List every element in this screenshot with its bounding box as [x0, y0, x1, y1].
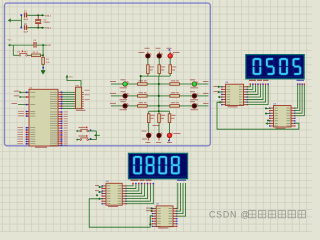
- wire reset left drop: [12, 45, 14, 55]
- led D5 west (row2): [123, 94, 128, 99]
- label R13: [171, 114, 175, 117]
- capacitor C1: [24, 13, 25, 18]
- U2 pin stubs: [222, 86, 225, 88]
- wire R0 to RST node: [41, 54, 44, 56]
- wires U2 outputs to DS1 segments: [247, 85, 251, 87]
- wires north LED to resistor: [147, 58, 149, 65]
- wire north common bus: [141, 75, 171, 77]
- label EA at MCU: [18, 115, 24, 118]
- ground terminal (reset): [41, 69, 45, 71]
- wire south bus: [149, 110, 170, 112]
- led D6 west (row3): [123, 104, 128, 109]
- wire C2 to XTAL2 net: [27, 27, 44, 29]
- resistor R4 north: [169, 65, 172, 74]
- wire RST to MCU: [18, 104, 26, 106]
- junction RST node top: [42, 44, 44, 46]
- wires north resistor to bus: [147, 74, 149, 77]
- wire node button K2: [76, 139, 78, 141]
- east net label row2: [203, 92, 209, 95]
- resistor R2 north: [147, 65, 150, 74]
- led D11 south (off): [157, 133, 162, 138]
- svg-text:CSDN @: CSDN @: [209, 209, 250, 219]
- wires U4 outputs to DS2 segments: [125, 185, 133, 186]
- resistor R11 south: [147, 114, 150, 123]
- button K0: [19, 55, 21, 57]
- svg-text:10k: 10k: [46, 62, 49, 64]
- DS1 pin logic states: [250, 83, 252, 85]
- junction RST mid: [42, 54, 44, 56]
- capacitor C2: [24, 25, 25, 30]
- junction crystal top: [37, 14, 39, 16]
- label R4: [172, 66, 176, 69]
- wire center to east resistor row1: [159, 83, 170, 85]
- wire east net stub row2: [197, 95, 209, 97]
- crystal X1: [37, 15, 39, 19]
- label R5: [139, 79, 144, 82]
- node R1 bottom (logic state): [42, 67, 44, 69]
- wires U3 left nets: [267, 107, 271, 109]
- wire east resistor to LED row2: [179, 95, 192, 97]
- U2 internal pin names: [227, 85, 231, 88]
- terminal dot U3 left: [267, 120, 269, 122]
- wire C3 to RST node: [37, 44, 47, 46]
- MCU internal pin name text: [30, 91, 35, 94]
- wire to button K0: [13, 54, 19, 56]
- wire west LED to resistor row2: [127, 95, 137, 97]
- east net label row3: [203, 102, 209, 105]
- U2 left red labels: [214, 85, 218, 88]
- U4 internal pin names: [107, 185, 111, 188]
- button K2: [80, 139, 82, 141]
- wire center vertical bus: [158, 76, 160, 111]
- junction center row1: [158, 83, 160, 85]
- DS2 bottom pin labels red: [131, 180, 139, 181]
- value RESPACK-8: [76, 110, 86, 111]
- wire east net stub row1: [197, 83, 209, 85]
- svg-text:XTAL2: XTAL2: [45, 27, 52, 30]
- node K1 right state: [90, 129, 92, 131]
- terminal dots U2 left: [218, 86, 220, 88]
- south LED mid label: [153, 124, 160, 127]
- south net labels: [146, 141, 151, 144]
- terminal arrow U4 serial: [98, 198, 101, 201]
- west LED label row1: [121, 78, 126, 81]
- svg-text:VCC: VCC: [8, 40, 13, 42]
- junction row1 tap: [140, 83, 142, 85]
- south LED labels: [142, 130, 147, 133]
- MCU right pin logic states: [61, 92, 63, 94]
- svg-text:VCC: VCC: [69, 76, 74, 78]
- U3 pin logic states: [269, 107, 270, 108]
- wire R1 to ground: [42, 64, 44, 70]
- node C2 left (logic state): [20, 27, 22, 29]
- U5 internal pin names: [157, 207, 161, 210]
- U5 pin stubs: [153, 208, 156, 210]
- resistor R12 south: [158, 114, 161, 123]
- resistor R6 west: [138, 95, 148, 98]
- watermark CJK glyph blocks: [249, 211, 256, 218]
- resistor R8 east: [170, 83, 180, 86]
- west net label row3: [110, 102, 116, 105]
- west LED label row3: [121, 100, 126, 103]
- value AT89C51 below MCU: [35, 147, 47, 148]
- MCU left pin stubs: [26, 91, 29, 93]
- wires U5 to DS2 digit commons: [176, 183, 178, 209]
- wire west net stub row1: [111, 83, 123, 85]
- 7-segment display DS1 showing 0505: [246, 55, 304, 79]
- resistor R5 west: [138, 83, 148, 86]
- MCU P1 net labels: [18, 126, 24, 129]
- wire east resistor to LED row1: [179, 83, 192, 85]
- DS1 bottom pin labels red: [249, 80, 256, 81]
- wire vertical cap common: [20, 15, 22, 27]
- west net label row1: [110, 80, 116, 83]
- label R8: [171, 79, 176, 82]
- button K1: [80, 130, 82, 132]
- wire serial link U2 to U3: [217, 102, 299, 129]
- wire button common vertical: [95, 131, 97, 140]
- shift register U4 74HC595: [106, 183, 122, 205]
- resistor R10 east: [170, 105, 180, 108]
- led D3 north green-pos lit red (on): [168, 54, 173, 59]
- wire west resistor to center row3: [147, 105, 159, 107]
- label ALE at MCU: [18, 112, 24, 115]
- junction center row3: [158, 105, 160, 107]
- terminal arrow at U2 serial: [218, 101, 221, 104]
- label R2: [150, 66, 154, 69]
- terminal arrow U5 input: [149, 216, 151, 223]
- ground terminal buttons: [94, 134, 97, 137]
- wire east net stub row3: [197, 105, 209, 107]
- wires south resistor to LED: [148, 123, 150, 134]
- svg-text:30pF: 30pF: [23, 19, 28, 21]
- label K2: [79, 136, 86, 137]
- wire bus drop to row1: [140, 76, 142, 84]
- DS1 bottom pin labels blue: [297, 80, 305, 81]
- label R3: [161, 66, 165, 69]
- net label RST at MCU: [12, 102, 18, 105]
- svg-text:XTAL1: XTAL1: [45, 14, 52, 17]
- junction north bus left: [140, 75, 142, 77]
- led D10 south (off): [146, 133, 151, 138]
- wire serial link U4 to U5: [89, 199, 153, 227]
- MCU P2 P3 net labels: [64, 111, 68, 114]
- U5 value 74HC595: [158, 228, 168, 229]
- label K1: [79, 127, 86, 128]
- net label X2 at MCU: [14, 94, 19, 97]
- label R7: [139, 101, 144, 104]
- wire K2 to common: [88, 139, 96, 141]
- label PSEN at MCU: [18, 110, 24, 113]
- east net label row1: [203, 80, 209, 83]
- junction crystal bottom: [37, 27, 39, 29]
- led D4 west (row1): [123, 82, 128, 87]
- led D7 east (row1): [192, 82, 197, 87]
- RP1 right net labels: [85, 89, 90, 92]
- resistor R13 south: [168, 114, 171, 123]
- wire south LED stubs bottom: [148, 138, 150, 141]
- wire XTAL2 terminal: [19, 96, 21, 98]
- shift register U2 74HC595: [226, 84, 244, 105]
- wire west LED to resistor row1: [127, 83, 137, 85]
- DS2 bottom pin labels blue: [177, 180, 186, 181]
- capacitor C3: [33, 42, 34, 48]
- power terminal (reset): [8, 44, 11, 47]
- wire RST vertical: [42, 45, 44, 57]
- east LED label row3: [190, 100, 195, 103]
- resistor R9 east: [170, 95, 180, 98]
- ground terminal (crystal circuit): [8, 19, 10, 22]
- wire reset top rail: [10, 44, 33, 46]
- node K2 right state: [90, 138, 92, 140]
- junction south bus: [158, 110, 160, 112]
- resistor R0: [32, 54, 41, 57]
- U2 value 74HC595: [228, 106, 238, 107]
- resistor R7 west: [138, 105, 148, 108]
- led D8 east (row2): [192, 94, 197, 99]
- resistor R1: [42, 57, 45, 64]
- wire west LED to resistor row3: [127, 105, 137, 107]
- wire center to east resistor row3: [159, 105, 170, 107]
- label R12: [161, 114, 165, 117]
- node dot XTAL1: [41, 14, 43, 16]
- west net label row2: [110, 92, 116, 95]
- north LED labels: [139, 51, 145, 54]
- net label X1 at MCU: [14, 90, 19, 93]
- led D9 east (row3): [192, 104, 197, 109]
- wire west resistor to center row2: [147, 95, 159, 97]
- U4 pin logic states: [102, 185, 103, 186]
- node north LED3 state: [169, 49, 171, 51]
- node south LED3 state: [168, 140, 170, 142]
- junction center row2: [158, 95, 160, 97]
- svg-text:RST: RST: [47, 45, 52, 47]
- wire west net stub row2: [111, 95, 123, 97]
- label R11: [151, 114, 155, 117]
- terminal dots U4 left: [99, 186, 101, 188]
- resistor pack RP1: [76, 87, 82, 109]
- MCU right pin stubs: [58, 91, 61, 93]
- U4 value 74HC595: [108, 206, 118, 207]
- label R6: [139, 91, 144, 94]
- U3 pin stubs: [270, 107, 273, 109]
- wire north LED stubs top: [147, 52, 149, 54]
- RP1 right stubs: [82, 91, 84, 93]
- U3 internal pin names: [275, 107, 279, 110]
- op body MCU U1 AT89C51: [29, 89, 58, 146]
- svg-text:30pF: 30pF: [23, 32, 28, 34]
- wires south bus to resistors: [148, 111, 150, 114]
- wire VCC to RP1: [67, 78, 81, 87]
- power terminal VCC for RP1: [66, 75, 69, 78]
- svg-text:12MHz: 12MHz: [43, 22, 49, 24]
- wire C1 to XTAL1 net: [27, 14, 44, 16]
- U4 left red labels: [95, 184, 99, 187]
- wire west resistor to center row1: [147, 83, 159, 85]
- U2 pin logic states: [221, 86, 222, 87]
- wire K1 to common: [88, 130, 96, 132]
- sheet border frame: [5, 3, 211, 146]
- U4 pin stubs: [103, 185, 106, 187]
- 7-segment display DS2 showing 0808: [128, 153, 187, 179]
- east LED label row1: [190, 78, 195, 81]
- wire K0 to R0: [28, 54, 32, 56]
- node C1 left (logic state): [20, 14, 22, 16]
- shift register U3 74HC595: [274, 106, 292, 128]
- led D1 north red (off): [146, 54, 151, 59]
- terminal dots U5 left: [151, 207, 153, 209]
- led D12 south lit red (on): [167, 133, 172, 138]
- wire center to east resistor row2: [159, 95, 170, 97]
- west LED label row2: [121, 90, 126, 93]
- wire west net stub row3: [111, 105, 123, 107]
- label R10: [171, 101, 176, 104]
- wire node button K1: [76, 130, 78, 132]
- east LED label row2: [190, 90, 195, 93]
- wires P0 bus to RP1: [63, 91, 76, 93]
- wire XTAL1 terminal: [19, 91, 21, 93]
- svg-text:R0 1k: R0 1k: [33, 52, 38, 54]
- node dot XTAL2: [41, 27, 43, 29]
- led D2 north yellow (off): [157, 54, 162, 59]
- U3 value 74HC595: [276, 128, 286, 129]
- shift register U5 74HC595: [156, 206, 173, 227]
- label R9: [171, 91, 176, 94]
- wire east resistor to LED row3: [179, 105, 192, 107]
- U5 pin logic states: [152, 208, 153, 209]
- wires DS1 digit commons to U3: [294, 85, 298, 108]
- wire gnd to caps: [10, 19, 21, 21]
- DS2 pin logic states: [132, 183, 134, 185]
- resistor R3 north: [158, 65, 161, 74]
- terminal arrow U3 clear: [265, 122, 268, 125]
- MCU left pin logic states: [26, 92, 28, 94]
